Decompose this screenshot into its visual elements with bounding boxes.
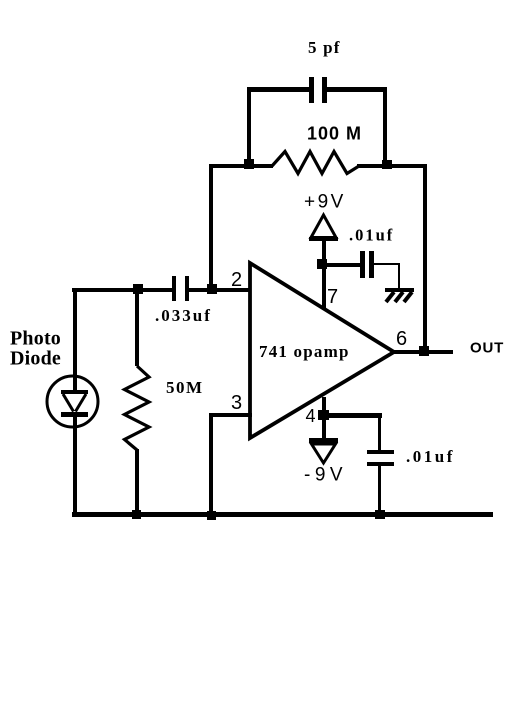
wire: vertical into bottom .01uf [378,417,381,450]
wire: from bottom .01uf down to ground rail [378,465,381,516]
capacitor C3 .01uf right plate (top) [369,251,374,278]
wire: feedback row left segment [209,164,273,168]
wire: thin wire from top .01uf to ground [374,263,399,265]
wire: bottom ground rail [72,512,493,517]
svg-text:.01uf: .01uf [349,226,394,245]
wire: pin2 row right segment to op-amp inverting input [189,288,252,292]
svg-text:2: 2 [231,269,242,291]
svg-text:Photo: Photo [10,328,61,350]
capacitor C1 .033uf right plate [185,276,189,301]
svg-text:7: 7 [327,286,338,308]
svg-text:5 pf: 5 pf [308,38,341,57]
photodiode D1 anode bar [61,390,88,394]
svg-text:4: 4 [306,406,316,426]
svg-text:50M: 50M [166,378,204,397]
wire: 50M branch vertical bottom [135,449,139,516]
node: junction dot pin4 [318,410,329,420]
wire: pin7 vertical from +9V to op-amp top edge [322,240,326,309]
wire: pin2 row left segment [72,288,172,292]
wire: left vertical branch upper (to photodiode anode) [73,288,77,391]
node: junction dot rail / .01uf branch [375,510,385,519]
photodiode D1 circle [47,376,98,427]
svg-text:100 M: 100 M [307,124,362,144]
wire: left vertical branch lower (photodiode cathode to ground rail) [73,413,77,517]
wire: vertical from pin2 node up to feedback row [209,164,213,292]
photodiode D1 cathode bar [61,412,88,417]
wire: 5pf loop right vertical [383,87,387,168]
resistor R1 100M zigzag [272,152,359,174]
capacitor C2 5pf left plate [309,77,314,103]
power symbol +9V triangle [309,215,338,241]
wire: 5pf loop top right segment [327,87,387,92]
node: junction dot output / right vertical [419,346,429,356]
wire: pin4 vertical from op-amp bottom edge to -9V [322,397,326,440]
wire: 5pf loop left vertical [247,87,251,168]
capacitor C4 .01uf bottom plate (bottom cap) [367,462,394,466]
node: junction dot rail / 50M branch [132,510,141,519]
svg-text:3: 3 [231,392,242,414]
svg-text:6: 6 [396,328,407,350]
wire: pin3 horizontal [209,413,252,417]
wire: 50M branch vertical top [135,291,139,366]
wire: right vertical from feedback row down to output node [423,164,427,354]
svg-text:OUT: OUT [470,340,504,357]
node: junction dot pin7 / +9V / .01uf [317,259,327,269]
capacitor C2 5pf right plate [322,77,327,103]
node: junction dot rail / pin3 branch [207,511,216,520]
wire: feedback row right segment [357,164,427,168]
photodiode D1 triangle sides [63,394,86,412]
power symbol -9V triangle [309,438,338,463]
svg-text:.033uf: .033uf [155,306,212,325]
part label Photo Diode [10,328,61,370]
wire: 5pf loop top left segment [247,87,309,92]
node: junction dot feedback row left 5pf tap [244,159,254,169]
wire: thin vertical drop to ground symbol [398,263,400,289]
capacitor C4 .01uf top plate (bottom cap) [367,450,394,454]
svg-text:741 opamp: 741 opamp [259,342,350,361]
resistor R2 50M zigzag [125,366,150,450]
svg-text:+9V: +9V [304,192,346,213]
capacitor C3 .01uf left plate (top) [360,251,365,278]
svg-text:.01uf: .01uf [406,447,455,466]
svg-text:-9V: -9V [304,465,347,486]
wire: pin4 horizontal to bottom .01uf [322,413,382,418]
node: junction dot pin2 row / feedback branch [207,284,217,294]
node: junction dot pin2 row / 50M branch [133,284,143,294]
ground symbol (top) [385,288,414,302]
svg-text:Diode: Diode [10,348,61,370]
wire: output from pin 6 [394,350,453,354]
capacitor C1 .033uf left plate [172,276,176,301]
wire: pin3 vertical down to ground rail [209,413,213,517]
wire: from pin7 node to top .01uf capacitor [322,263,360,267]
node: junction dot feedback row right 5pf tap [382,160,392,169]
op-amp U1 741 triangle [250,263,394,438]
